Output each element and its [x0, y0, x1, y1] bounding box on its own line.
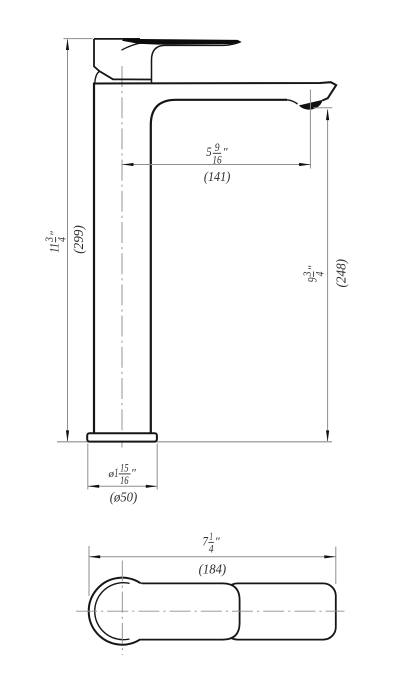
label dia 1 15/16" — [108, 461, 137, 487]
escutcheon skirt fillet — [95, 71, 99, 83]
svg-text:16: 16 — [212, 153, 221, 166]
arrow up — [66, 39, 69, 50]
spout top edge — [93, 82, 336, 100]
label 11 3/4" — [43, 230, 69, 253]
dim 5 9/16 (141): dimension line — [122, 164, 310, 166]
arrow right — [299, 163, 310, 166]
top view: faucet base inner circle arc — [95, 583, 130, 640]
arrow right — [324, 555, 335, 558]
top view vertical centerline — [121, 561, 123, 656]
dimension line — [88, 485, 157, 487]
svg-text:(248): (248) — [335, 259, 350, 288]
handle base top edge — [94, 38, 140, 40]
arrow right — [146, 485, 157, 488]
svg-text:9: 9 — [215, 141, 220, 154]
faucet body outline (side view) — [94, 83, 287, 433]
extension line left — [88, 546, 90, 596]
label (248) — [335, 259, 350, 288]
svg-text:4: 4 — [209, 542, 214, 555]
lever underside and neck — [152, 42, 241, 83]
dim 11 3/4 (299): vertical dimension line — [67, 40, 69, 442]
arrow left — [89, 555, 100, 558]
aerator outlet (dark lens) — [300, 100, 322, 109]
arrow up — [326, 109, 329, 120]
top view: handle rounded rect — [110, 583, 240, 639]
handle detail curve (swoosh) — [122, 42, 150, 51]
top view: faucet base outer circle — [89, 578, 156, 645]
svg-text:4: 4 — [56, 237, 69, 242]
label 5 9/16" — [206, 141, 228, 167]
centerline of faucet body (side view) — [121, 66, 123, 448]
extension line right — [335, 547, 337, 585]
counter mounting surface line — [57, 441, 332, 443]
arrow left — [88, 485, 99, 488]
svg-text:4: 4 — [314, 271, 327, 276]
spout underside step to aerator — [287, 100, 298, 104]
svg-text:1: 1 — [209, 530, 213, 543]
svg-text:16: 16 — [120, 474, 129, 487]
dim 9 3/4 (248): extension line at outlet level — [314, 107, 333, 109]
svg-text:3: 3 — [43, 237, 56, 243]
label 7 1/4" — [203, 530, 221, 556]
flange at base — [87, 433, 157, 441]
svg-text:7: 7 — [203, 534, 209, 548]
svg-text:(141): (141) — [204, 170, 231, 185]
dim 9 3/4 (248): vertical dimension line — [327, 110, 329, 442]
top view horizontal centerline — [76, 610, 345, 612]
dim 7 1/4 (184): dimension line — [89, 556, 336, 558]
svg-text:1: 1 — [114, 466, 118, 480]
svg-text:5: 5 — [206, 145, 211, 159]
svg-text:11: 11 — [48, 243, 62, 253]
dim dia 1 15/16 (50): extension lines — [87, 444, 89, 490]
svg-text:15: 15 — [120, 461, 129, 474]
handle base escutcheon — [94, 39, 151, 80]
arrow down — [326, 430, 329, 441]
svg-text:3: 3 — [301, 271, 314, 277]
top view: spout body rounded rect — [225, 583, 336, 639]
svg-text:(ø50): (ø50) — [110, 490, 138, 505]
extension line at spout outlet — [309, 90, 311, 169]
label (299) — [72, 225, 87, 254]
svg-text:(184): (184) — [199, 562, 227, 577]
label 9 3/4" — [301, 265, 327, 283]
lever blade (black) — [123, 39, 240, 44]
arrow down — [66, 430, 69, 441]
svg-text:(299): (299) — [72, 225, 87, 254]
dim 11 3/4 (299): extension line top — [64, 38, 93, 40]
svg-text:9: 9 — [306, 277, 320, 282]
arrow left — [122, 163, 133, 166]
